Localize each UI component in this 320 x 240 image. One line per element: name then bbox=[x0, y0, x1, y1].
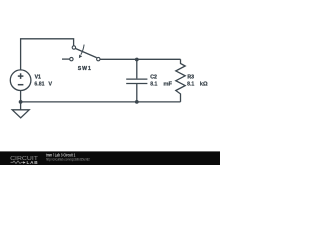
svg-text:V: V bbox=[48, 82, 52, 88]
svg-text:8.1: 8.1 bbox=[187, 82, 194, 88]
svg-text:C2: C2 bbox=[150, 74, 157, 80]
svg-text:SW1: SW1 bbox=[78, 66, 91, 72]
svg-text:http://circuitlab.com/cqs38bd3: http://circuitlab.com/cqs38bd35u982 bbox=[46, 157, 90, 161]
svg-text:kΩ: kΩ bbox=[200, 82, 208, 88]
svg-text:V1: V1 bbox=[35, 74, 41, 80]
svg-text:6.81: 6.81 bbox=[34, 82, 44, 88]
svg-text:mF: mF bbox=[163, 82, 172, 88]
svg-text:LAB: LAB bbox=[27, 160, 39, 165]
svg-text:R3: R3 bbox=[187, 74, 194, 80]
svg-text:8.1: 8.1 bbox=[150, 82, 157, 88]
